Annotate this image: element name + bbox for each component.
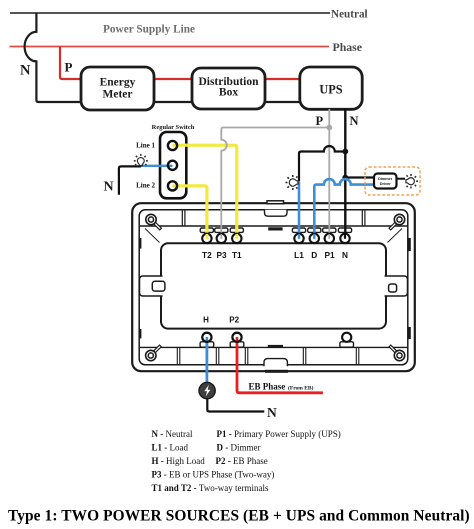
side slot right upper (408, 238, 410, 251)
dimmer dashed box (365, 167, 420, 195)
wire: yellow Line1 to T1 (173, 145, 237, 238)
terminal spare (342, 333, 351, 342)
lamp icon dimmer (406, 174, 418, 188)
junction dot N1 (342, 149, 348, 155)
svg-text:Driver: Driver (380, 182, 391, 186)
plate outer border (132, 203, 415, 371)
terminal T2 (202, 234, 211, 243)
energy meter box (81, 67, 154, 110)
top rib left (181, 210, 183, 226)
terminal P2 (232, 333, 241, 342)
svg-text:Line 1: Line 1 (136, 141, 155, 149)
terminal P1 (325, 234, 334, 243)
svg-text:D: D (311, 250, 317, 260)
corner screw bottom-left (146, 346, 161, 361)
bottom dark bar on module edge (268, 345, 283, 348)
terminal L1 (294, 234, 303, 243)
wire: black L to switch (119, 166, 141, 194)
plate bed top line (140, 225, 407, 227)
svg-text:Regular Switch: Regular Switch (152, 124, 195, 131)
distribution box (192, 68, 265, 109)
corner diagonal top-left (145, 229, 160, 243)
corner screw top-left (146, 214, 161, 229)
terminal P3 (217, 234, 226, 243)
svg-text:Phase: Phase (333, 40, 363, 54)
corner screw bottom-right (390, 346, 405, 361)
svg-text:Dimmer: Dimmer (378, 177, 393, 181)
UPS box (300, 67, 362, 109)
svg-text:P: P (316, 114, 324, 128)
terminal H (202, 333, 211, 342)
svg-text:P: P (65, 60, 73, 75)
lamp icon load (285, 175, 298, 190)
side slot left upper (139, 238, 141, 249)
wire: blue D to dimmer with two hops (314, 179, 374, 238)
top rib right (361, 210, 363, 226)
svg-text:H: H (203, 316, 209, 325)
terminal N (340, 234, 349, 243)
svg-text:P1 - Primary Power Supply (UPS: P1 - Primary Power Supply (UPS) (217, 429, 341, 439)
top center clip bump (267, 201, 284, 204)
plate inner border (139, 210, 408, 365)
left lug (140, 276, 163, 296)
junction dot N2 (342, 175, 348, 181)
svg-text:P1: P1 (325, 250, 336, 260)
svg-text:Neutral: Neutral (331, 9, 368, 21)
side slot right lower (408, 327, 410, 339)
terminal tabs (200, 228, 351, 232)
svg-text:Box: Box (219, 86, 238, 98)
svg-text:P3 - EB or UPS Phase (Two-way): P3 - EB or UPS Phase (Two-way) (152, 470, 275, 480)
svg-text:Type 1: TWO POWER SOURCES (EB: Type 1: TWO POWER SOURCES (EB + UPS and … (8, 508, 470, 525)
svg-text:Line 2: Line 2 (136, 182, 155, 190)
svg-text:UPS: UPS (319, 83, 342, 97)
switch box (160, 132, 186, 198)
svg-text:Meter: Meter (103, 88, 133, 100)
svg-text:L1 - Load: L1 - Load (152, 442, 189, 452)
svg-text:N: N (20, 63, 31, 79)
svg-text:D - Dimmer: D - Dimmer (217, 442, 261, 452)
svg-text:Power Supply Line: Power Supply Line (103, 24, 195, 36)
svg-text:N: N (104, 180, 114, 195)
svg-text:P2 - EB Phase: P2 - EB Phase (216, 456, 268, 466)
wire: neutral bus (10, 12, 330, 14)
bottom center pocket (264, 359, 287, 367)
svg-text:P3: P3 (217, 250, 228, 260)
svg-text:(From EB): (From EB) (288, 384, 314, 391)
switch terminal circles (168, 141, 177, 150)
wire: blue load to L1 (298, 182, 301, 238)
wire: neutral drop with hop over phase (25, 13, 300, 102)
terminal T1 (232, 234, 241, 243)
bottom terminal tabs (200, 342, 353, 347)
wire: phase bus (10, 46, 330, 48)
svg-text:N: N (350, 114, 359, 128)
svg-text:T1: T1 (232, 250, 242, 260)
dimmer driver box (374, 174, 397, 189)
side slot left lower (139, 329, 141, 338)
svg-text:N - Neutral: N - Neutral (152, 429, 193, 439)
right lug (385, 276, 408, 296)
wire: gray UPS P to P3 and P1, hop over yellow (328, 109, 330, 238)
wire: red P2 EB phase (237, 337, 323, 393)
svg-text:N: N (267, 405, 277, 420)
corner diagonal top-right (388, 229, 403, 243)
lamp icon switch (134, 154, 148, 166)
bottom dark bar on outer edge (265, 370, 288, 373)
top dark bar (268, 227, 282, 230)
wire: driver to lamp (397, 178, 406, 180)
junction dot gray (326, 125, 332, 131)
wire: blue to switch middle (141, 165, 173, 167)
svg-text:H - High Load: H - High Load (152, 456, 206, 466)
top center pocket (265, 210, 288, 216)
wire: N branch to dimmer driver (345, 176, 374, 178)
wire: N branch to load with hop over gray (299, 146, 345, 182)
wire: blue H to load (205, 337, 208, 383)
wire: phase branch to meter (60, 47, 81, 80)
svg-text:EB Phase: EB Phase (249, 382, 286, 392)
svg-text:T1 and T2 - Two-way terminals: T1 and T2 - Two-way terminals (152, 483, 269, 493)
high load symbol (199, 382, 215, 398)
wire: phase through boxes (81, 78, 300, 80)
wire: yellow Line2 to T2 (173, 186, 207, 239)
bottom ribs (140, 346, 407, 348)
wire: black UPS N down to N terminal (344, 109, 346, 238)
right lug slot (389, 284, 397, 292)
wire: load to N (207, 399, 264, 412)
left lug slot (152, 281, 165, 291)
svg-text:N: N (342, 250, 348, 260)
svg-text:P2: P2 (229, 316, 239, 325)
svg-text:T2: T2 (202, 250, 212, 260)
svg-text:L1: L1 (294, 250, 304, 260)
terminal D (310, 234, 319, 243)
svg-text:Energy: Energy (100, 77, 136, 89)
module body (161, 243, 386, 328)
corner screw top-right (390, 214, 405, 229)
